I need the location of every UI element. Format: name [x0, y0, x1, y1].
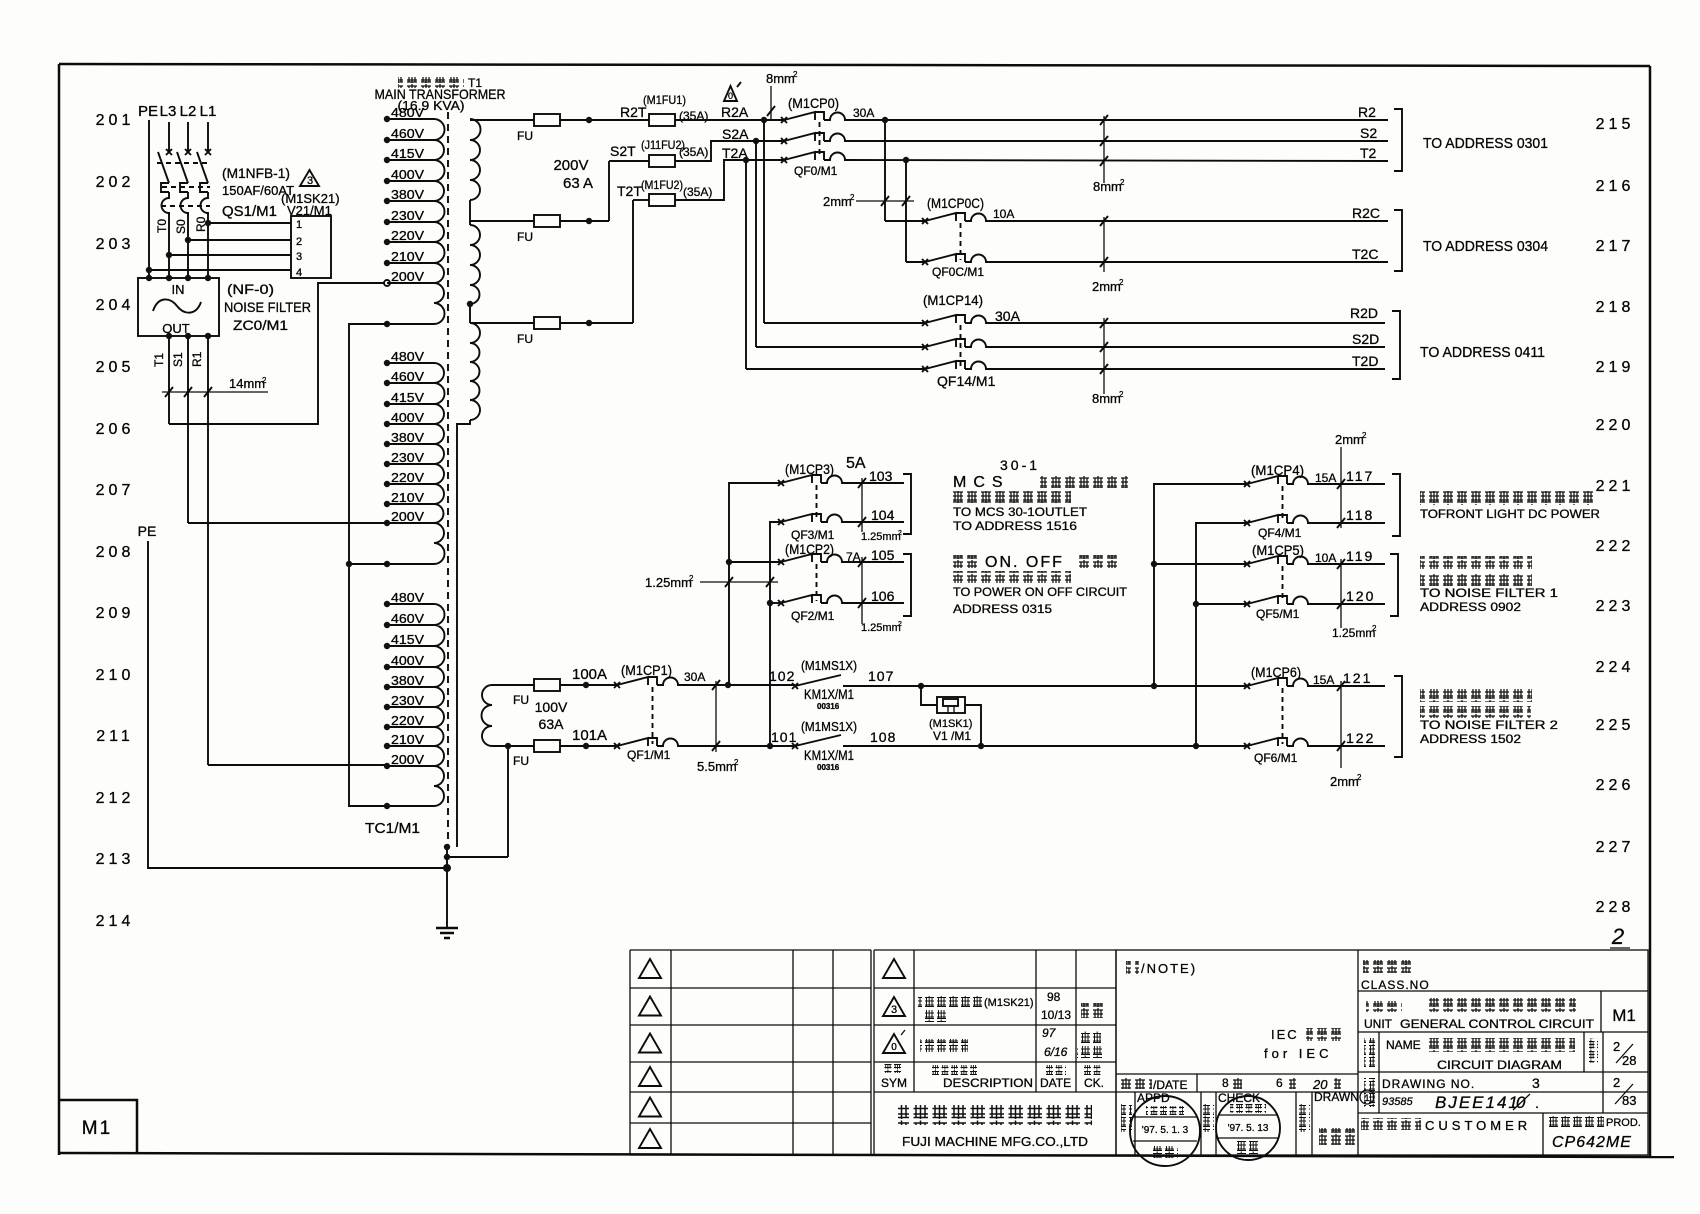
wire 108	[843, 745, 1247, 747]
wire-size marker 8mm2 on R2D group	[1092, 318, 1124, 406]
svg-text:460V: 460V	[391, 126, 424, 141]
wire-size marker 8mm2 on R2/S2/T2	[1093, 115, 1125, 194]
svg-text:220: 220	[1596, 417, 1635, 434]
right line-number column 215-228	[1596, 116, 1635, 916]
svg-text:1.25mm: 1.25mm	[861, 531, 901, 543]
svg-text:121: 121	[1343, 670, 1372, 686]
svg-text:S0: S0	[174, 219, 188, 234]
fuse FU (100A feed)	[492, 684, 534, 686]
wire R2 drop to QF0C	[884, 120, 886, 221]
svg-text:2: 2	[1119, 390, 1124, 399]
fuse J11FU2 (35A)	[649, 155, 675, 167]
revision table (middle, with entries)	[874, 950, 1116, 1155]
svg-text:225: 225	[1596, 717, 1635, 734]
svg-text:KM1X/M1: KM1X/M1	[804, 747, 854, 763]
svg-text:220V: 220V	[391, 228, 424, 243]
fuse FU (S2T feed)	[470, 220, 534, 222]
svg-text:SYM: SYM	[881, 1076, 907, 1090]
svg-text:FU: FU	[517, 230, 533, 244]
svg-text:'97. 5. 13: '97. 5. 13	[1228, 1123, 1269, 1134]
svg-text:103: 103	[869, 468, 893, 484]
svg-text:QF4/M1: QF4/M1	[1258, 526, 1302, 540]
company name box	[898, 1105, 1092, 1125]
svg-text:PE: PE	[138, 103, 158, 120]
fuse FU (101A feed)	[492, 745, 534, 747]
svg-text:98: 98	[1047, 990, 1061, 1004]
wire R0 pole drop	[207, 213, 209, 278]
wire T1 output	[168, 336, 170, 424]
node PE L3 L2 L1 labels	[138, 103, 216, 120]
svg-text:'97. 5. 1. 3: '97. 5. 1. 3	[1142, 1125, 1189, 1136]
svg-text:T2C: T2C	[1352, 246, 1378, 262]
svg-text:TO NOISE FILTER 1: TO NOISE FILTER 1	[1420, 586, 1558, 600]
wire feeder to QF5 pole1	[1154, 563, 1247, 565]
svg-text:5.5mm: 5.5mm	[697, 759, 737, 774]
fuse M1FU2 (35A)	[649, 194, 675, 206]
svg-text:TC1/M1: TC1/M1	[365, 820, 420, 837]
svg-text:3: 3	[307, 175, 313, 187]
transformer core (dashed)	[447, 112, 449, 845]
svg-text:(M1CP0C): (M1CP0C)	[927, 195, 984, 211]
svg-text:223: 223	[1596, 598, 1635, 615]
note 30-1 MCS outlet (Japanese)	[953, 457, 1128, 533]
svg-text:CP642ME: CP642ME	[1552, 1134, 1632, 1151]
svg-text:226: 226	[1596, 777, 1635, 794]
fuse FU (R2T feed)	[470, 119, 534, 121]
svg-text:S2D: S2D	[1352, 331, 1379, 347]
svg-text:205: 205	[96, 359, 135, 376]
svg-text:30-1: 30-1	[1000, 457, 1040, 473]
svg-text:(M1MS1X): (M1MS1X)	[801, 658, 857, 673]
wire R2A	[675, 119, 784, 121]
svg-text:QF6/M1: QF6/M1	[1254, 751, 1298, 765]
svg-text:IEC: IEC	[1271, 1027, 1299, 1042]
svg-text:BJEE141: BJEE141	[1435, 1093, 1520, 1112]
circuit breaker QF5/M1 (M1CP5) 10A 2-pole	[1244, 542, 1336, 621]
svg-text:206: 206	[96, 421, 135, 438]
transformer secondary winding W3	[470, 323, 480, 420]
bracket to address 0411	[1392, 311, 1400, 379]
surge killer V1/M1 (M1SK1)	[921, 686, 981, 746]
svg-text:107: 107	[868, 668, 894, 684]
svg-text:216: 216	[1596, 178, 1635, 195]
svg-text:6/16: 6/16	[1044, 1045, 1068, 1059]
svg-text:105: 105	[871, 547, 895, 563]
svg-text:117: 117	[1346, 468, 1374, 484]
circuit breaker QF2/M1 (M1CP2) 7A 2-pole	[778, 541, 861, 623]
wire ground bus	[446, 845, 448, 928]
wire-size marker 1.25mm2 (QF2 feed)	[645, 574, 778, 590]
svg-text:380V: 380V	[391, 187, 424, 202]
svg-text:119: 119	[1346, 548, 1374, 564]
svg-text:PE: PE	[138, 523, 157, 539]
svg-text:2mm: 2mm	[1092, 279, 1121, 294]
svg-text:215: 215	[1596, 116, 1635, 133]
svg-text:QF3/M1: QF3/M1	[791, 528, 835, 542]
wire R1 output	[207, 336, 209, 765]
wire S0 to V21 pin2	[188, 239, 291, 241]
wire S1 output	[187, 336, 189, 523]
svg-text:200V: 200V	[391, 752, 424, 767]
svg-text:(NF-0): (NF-0)	[227, 281, 274, 297]
svg-text:460V: 460V	[391, 369, 424, 384]
svg-text:TO ADDRESS 0411: TO ADDRESS 0411	[1420, 344, 1545, 361]
wire PE to V21 pin4	[149, 269, 291, 271]
approval stamp 2	[1216, 1096, 1280, 1160]
wire secondary neutral drops	[507, 746, 509, 857]
svg-text:230V: 230V	[391, 208, 424, 223]
svg-text:104: 104	[871, 507, 895, 523]
wire S1 to 200V tap group2	[188, 522, 387, 524]
svg-text:2: 2	[1613, 1075, 1620, 1090]
svg-text:480V: 480V	[391, 105, 424, 120]
svg-text:FU: FU	[517, 332, 533, 346]
wire L2	[187, 122, 189, 152]
wire L3	[168, 122, 170, 152]
svg-text:2: 2	[689, 574, 694, 583]
svg-text:230V: 230V	[391, 693, 424, 708]
svg-text:2: 2	[734, 758, 739, 767]
svg-text:S2A: S2A	[722, 126, 749, 142]
svg-text:207: 207	[96, 482, 135, 499]
svg-text:30A: 30A	[995, 308, 1021, 324]
svg-text:(M1NFB-1): (M1NFB-1)	[222, 165, 290, 181]
wire S2	[848, 140, 1388, 142]
svg-text:NAME: NAME	[1386, 1038, 1421, 1052]
svg-text:415V: 415V	[391, 390, 424, 405]
fuse FU (T2T feed)	[470, 322, 534, 324]
bracket noise filter 2	[1394, 676, 1402, 757]
svg-text:2: 2	[1611, 924, 1624, 949]
svg-text:63A: 63A	[539, 716, 565, 732]
svg-text:208: 208	[96, 544, 135, 561]
wire PE earth run	[148, 541, 447, 868]
svg-text:TOFRONT LIGHT DC POWER: TOFRONT LIGHT DC POWER	[1420, 507, 1600, 521]
wire T2D	[989, 368, 1385, 370]
svg-text:R1: R1	[190, 351, 204, 367]
svg-text:6: 6	[1276, 1076, 1283, 1090]
svg-text:DESCRIPTION: DESCRIPTION	[943, 1076, 1033, 1090]
wire-size marker 2mm2 on R2C/T2C	[1092, 216, 1124, 294]
bracket to address 0301	[1394, 109, 1402, 171]
circuit breaker QF0/M1 (M1CP0) 30A 3-pole	[781, 95, 874, 178]
svg-text:T2D: T2D	[1352, 353, 1378, 369]
svg-text:230V: 230V	[391, 450, 424, 465]
svg-text:(M1CP2): (M1CP2)	[785, 541, 834, 557]
bracket MCS outlet	[903, 474, 911, 534]
left line-number column 201-214	[96, 112, 135, 930]
svg-text:220V: 220V	[391, 470, 424, 485]
svg-text:L1: L1	[200, 103, 217, 120]
svg-text:211: 211	[96, 728, 134, 745]
svg-text:200V: 200V	[391, 269, 424, 284]
svg-text:5A: 5A	[846, 455, 866, 472]
wire T2	[848, 160, 1388, 161]
wire T2 drop to QF0C	[905, 160, 907, 262]
svg-text:460V: 460V	[391, 611, 424, 626]
wire 106	[845, 602, 904, 604]
svg-text:15A: 15A	[1315, 471, 1336, 485]
svg-text:210V: 210V	[391, 249, 424, 264]
wire-size marker 1.25mm2 (119/120)	[1332, 559, 1377, 640]
svg-text:DATE: DATE	[1040, 1076, 1071, 1090]
surge absorber V21/M1 box	[291, 216, 331, 279]
wire W1-W2 link	[469, 200, 471, 225]
drawn-by signature	[1319, 1128, 1355, 1145]
svg-text:T1: T1	[152, 353, 166, 367]
svg-text:202: 202	[96, 174, 135, 191]
transformer secondary winding W4 (100V)	[482, 685, 493, 746]
bracket to address 0304	[1394, 210, 1402, 271]
svg-text:480V: 480V	[391, 590, 424, 605]
svg-text:(M1CP14): (M1CP14)	[923, 292, 983, 308]
svg-text:T2: T2	[1360, 145, 1377, 161]
svg-text:.: .	[1535, 1095, 1539, 1111]
wire S0 pole drop	[187, 213, 189, 278]
contactor KM1X/M1 (M1MS1X) lower	[792, 719, 857, 772]
wire L1	[207, 122, 209, 152]
svg-text:3: 3	[891, 1004, 897, 1016]
svg-text:DRAWING NO.: DRAWING NO.	[1382, 1077, 1475, 1091]
svg-text:S2T: S2T	[610, 143, 636, 159]
svg-text:209: 209	[96, 605, 135, 622]
svg-text:R2C: R2C	[1352, 205, 1380, 221]
svg-text:101A: 101A	[572, 727, 607, 744]
svg-text:S2: S2	[1360, 125, 1377, 141]
svg-text:415V: 415V	[391, 146, 424, 161]
wire R2A drop to QF14	[763, 120, 765, 323]
wire R2D	[989, 322, 1385, 324]
svg-text:203: 203	[96, 236, 135, 253]
sheet label box M1	[59, 1100, 137, 1154]
wire 101A	[560, 745, 617, 747]
wire 122	[1311, 745, 1385, 747]
svg-text:8: 8	[1222, 1076, 1229, 1090]
svg-text:2: 2	[793, 70, 798, 79]
svg-text:217: 217	[1596, 238, 1635, 255]
svg-text:380V: 380V	[391, 430, 424, 445]
svg-text:MCS: MCS	[953, 474, 1010, 491]
svg-text:201: 201	[96, 112, 135, 129]
bracket front light	[1392, 474, 1400, 536]
svg-text:100V: 100V	[535, 699, 568, 715]
svg-text:100A: 100A	[572, 666, 607, 683]
svg-text:1.25mm: 1.25mm	[645, 575, 692, 590]
svg-text:R2A: R2A	[721, 104, 749, 120]
svg-text:QF0/M1: QF0/M1	[794, 164, 838, 178]
svg-text:GENERAL CONTROL CIRCUIT: GENERAL CONTROL CIRCUIT	[1400, 1017, 1595, 1031]
svg-text:V1 /M1: V1 /M1	[933, 729, 971, 743]
title block (right)	[1116, 950, 1648, 1166]
wire 107	[843, 685, 1247, 687]
circuit breaker QF6/M1 (M1CP6) 15A 2-pole	[1244, 664, 1334, 765]
svg-text:for IEC: for IEC	[1264, 1046, 1332, 1061]
wire 117	[1311, 483, 1385, 485]
svg-text:(M1CP3): (M1CP3)	[785, 461, 834, 477]
wire feeder to QF3 pole2	[770, 522, 781, 746]
svg-text:8mm: 8mm	[1092, 391, 1121, 406]
svg-text:30A: 30A	[853, 106, 874, 120]
svg-text:(M1CP0): (M1CP0)	[788, 95, 839, 111]
svg-text:2: 2	[850, 193, 855, 202]
wire R2	[848, 119, 1388, 121]
svg-text:2: 2	[898, 530, 902, 537]
circuit breaker QS1/M1 (M1NFB-1) 3 poles	[157, 149, 211, 215]
circuit breaker QF0C/M1 (M1CP0C) 10A 2-pole	[922, 195, 1014, 279]
wire-size marker 8mm2 top	[766, 70, 798, 120]
wire feeder to QF4 pole1	[1154, 484, 1247, 686]
svg-text:101: 101	[771, 729, 797, 745]
svg-text:83: 83	[1622, 1093, 1636, 1108]
svg-text:CK.: CK.	[1084, 1076, 1104, 1090]
svg-text:213: 213	[96, 851, 135, 868]
wire T1 to 200V tap group1	[169, 283, 384, 424]
svg-text:2mm: 2mm	[1330, 774, 1359, 789]
wire 119	[1311, 563, 1385, 565]
svg-text:210V: 210V	[391, 732, 424, 747]
svg-text:TO NOISE FILTER 2: TO NOISE FILTER 2	[1420, 718, 1558, 732]
svg-text:NOISE FILTER: NOISE FILTER	[224, 299, 311, 315]
svg-text:(M1FU2): (M1FU2)	[641, 178, 683, 192]
svg-text:M1: M1	[1612, 1006, 1636, 1025]
svg-text:QS1/M1: QS1/M1	[222, 203, 277, 220]
revision table (left, empty)	[630, 950, 871, 1155]
bracket power on/off	[903, 554, 911, 616]
svg-text:ADDRESS 1502: ADDRESS 1502	[1420, 732, 1521, 746]
svg-text:63 A: 63 A	[563, 175, 593, 192]
svg-text:2: 2	[296, 236, 302, 248]
wire 101	[681, 745, 795, 747]
svg-text:3: 3	[296, 251, 302, 263]
svg-text:ADDRESS 0902: ADDRESS 0902	[1420, 600, 1521, 614]
wire 102	[681, 684, 795, 686]
svg-text:T0: T0	[155, 219, 169, 233]
wire 118	[1311, 522, 1385, 524]
svg-text:CLASS.NO: CLASS.NO	[1361, 978, 1430, 992]
svg-text:120: 120	[1346, 588, 1375, 604]
svg-text:210: 210	[96, 667, 135, 684]
svg-text:TO MCS 30-1OUTLET: TO MCS 30-1OUTLET	[953, 505, 1088, 519]
circuit breaker QF14/M1 (M1CP14) 30A 3-pole	[922, 292, 1021, 389]
svg-text:8mm: 8mm	[766, 71, 795, 86]
svg-text:TO ADDRESS 0304: TO ADDRESS 0304	[1423, 238, 1548, 255]
wire T2A drop to QF14	[745, 160, 747, 369]
wire 105	[845, 561, 904, 563]
svg-text:10A: 10A	[993, 207, 1014, 221]
svg-text:415V: 415V	[391, 632, 424, 647]
svg-text:UNIT: UNIT	[1364, 1017, 1393, 1031]
svg-text:DRAWN: DRAWN	[1314, 1090, 1359, 1104]
svg-text:2: 2	[1613, 1039, 1620, 1054]
wire feeder to QF5 pole2	[1196, 603, 1247, 605]
wire W3 bottom to bus	[457, 420, 470, 847]
svg-text:30A: 30A	[684, 670, 705, 684]
svg-text:0: 0	[891, 1042, 897, 1053]
svg-text:FUJI MACHINE MFG.CO.,LTD: FUJI MACHINE MFG.CO.,LTD	[902, 1134, 1088, 1149]
svg-text:0: 0	[728, 91, 733, 101]
svg-text:(M1CP4): (M1CP4)	[1251, 462, 1304, 478]
svg-text:222: 222	[1596, 538, 1635, 555]
wire R1 to 200V tap group3	[208, 764, 387, 766]
svg-text:T2T: T2T	[617, 183, 642, 199]
note noise filter 1 (Japanese)	[1420, 556, 1558, 614]
svg-text:00316: 00316	[817, 763, 840, 772]
svg-text:00316: 00316	[817, 702, 840, 711]
svg-text:220V: 220V	[391, 713, 424, 728]
svg-text:15A: 15A	[1313, 673, 1334, 687]
svg-text:1.25mm: 1.25mm	[1332, 626, 1375, 640]
svg-text:TO ADDRESS 1516: TO ADDRESS 1516	[953, 519, 1077, 533]
svg-text:2: 2	[262, 376, 267, 385]
svg-text:10/13: 10/13	[1041, 1008, 1071, 1022]
svg-text:L3: L3	[160, 103, 177, 120]
svg-text:(35A): (35A)	[679, 145, 708, 159]
svg-text:QF14/M1: QF14/M1	[937, 373, 996, 389]
wire S2A drop to QF14	[755, 141, 757, 347]
circuit breaker QF4/M1 (M1CP4) 15A 2-pole	[1244, 462, 1336, 540]
svg-text:8mm: 8mm	[1093, 179, 1122, 194]
svg-text:380V: 380V	[391, 673, 424, 688]
transformer secondary winding W1 (200V upper)	[470, 119, 481, 200]
svg-text:QF1/M1: QF1/M1	[627, 748, 671, 762]
wire 104	[845, 521, 904, 523]
wire-size marker 2mm2 (121/122)	[1330, 681, 1362, 789]
circuit breaker QF3/M1 (M1CP3) 5A 2-pole	[778, 455, 866, 542]
approval stamp 1	[1130, 1096, 1200, 1166]
svg-text:108: 108	[870, 729, 896, 745]
svg-text:QF5/M1: QF5/M1	[1256, 607, 1300, 621]
wire 120	[1311, 603, 1385, 605]
wire FU to M1FU2	[560, 322, 633, 324]
svg-text:200V: 200V	[553, 157, 588, 174]
svg-text:2: 2	[1357, 773, 1362, 782]
svg-text:106: 106	[871, 588, 895, 604]
bracket noise filter 1	[1390, 554, 1398, 616]
svg-text:R2: R2	[1358, 104, 1376, 120]
wire-size marker 2mm2 (117/118)	[1335, 431, 1367, 528]
circuit breaker QF1/M1 (M1CP1) 30A 2-pole	[614, 662, 705, 762]
svg-text:PROD.: PROD.	[1606, 1117, 1641, 1129]
wire bus to group2 bottom	[349, 563, 387, 565]
noise filter ZC0/M1 box (NF-0)	[138, 275, 219, 339]
contactor KM1X/M1 (M1MS1X) upper	[792, 658, 857, 711]
svg-text:L2: L2	[180, 103, 197, 120]
wire FU to M1FU1	[560, 119, 649, 121]
svg-text:2mm: 2mm	[1335, 432, 1364, 447]
transformer primary winding group 1	[384, 105, 445, 327]
svg-text:QF0C/M1: QF0C/M1	[932, 265, 984, 279]
wire T2A	[675, 160, 784, 200]
wire common tap bus	[349, 324, 387, 806]
svg-text:212: 212	[96, 790, 135, 807]
note noise filter 2 (Japanese)	[1420, 689, 1558, 746]
wire-size marker 2mm2 (QF0C feed)	[823, 193, 914, 209]
svg-text:400V: 400V	[391, 653, 424, 668]
svg-text:2: 2	[1120, 178, 1125, 187]
svg-text:2: 2	[1119, 278, 1124, 287]
svg-text:ON. OFF: ON. OFF	[985, 554, 1064, 571]
main transformer T1 header	[375, 76, 506, 113]
svg-text:400V: 400V	[391, 410, 424, 425]
wire 103	[845, 482, 904, 484]
wire FU to J11FU2	[560, 220, 609, 222]
svg-text:R2D: R2D	[1350, 305, 1378, 321]
wire 121	[1311, 685, 1385, 687]
wire PE drop to noise filter	[148, 120, 150, 278]
svg-text:ZC0/M1: ZC0/M1	[233, 317, 288, 333]
note power ON OFF circuit (Japanese)	[953, 554, 1128, 616]
svg-text:228: 228	[1596, 899, 1635, 916]
